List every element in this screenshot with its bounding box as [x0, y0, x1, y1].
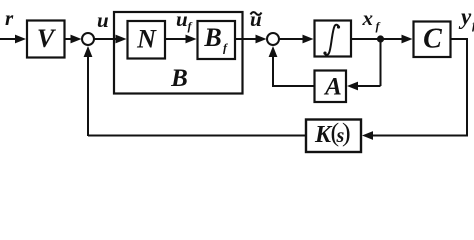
svg-text:A: A: [323, 74, 342, 101]
svg-text:u: u: [97, 8, 109, 32]
svg-text:V: V: [37, 24, 57, 53]
svg-text:): ): [342, 118, 351, 147]
svg-text:y: y: [458, 4, 472, 29]
svg-text:f: f: [376, 19, 381, 33]
svg-text:r: r: [5, 6, 14, 30]
svg-text:B: B: [203, 23, 221, 52]
svg-text:C: C: [423, 24, 442, 55]
svg-text:u: u: [176, 7, 188, 31]
svg-text:u: u: [250, 7, 262, 31]
svg-text:B: B: [170, 65, 188, 92]
svg-text:f: f: [188, 19, 193, 33]
svg-text:x: x: [362, 6, 374, 30]
svg-text:N: N: [136, 25, 157, 54]
